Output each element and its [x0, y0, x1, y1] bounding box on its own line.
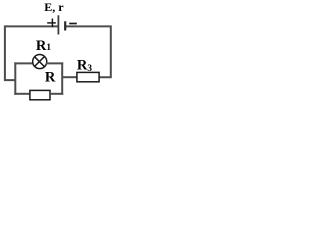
wire: lead from parallel section to R3 — [62, 76, 77, 78]
label - (negative terminal) — [69, 23, 77, 25]
svg-text:R: R — [45, 69, 56, 85]
label + (positive terminal) — [47, 19, 56, 28]
wire: from battery + plate, left along top, down left side, to parallel section — [5, 26, 58, 80]
svg-text:R3: R3 — [77, 57, 92, 74]
resistor R3 (box) — [77, 72, 99, 81]
svg-text:R1: R1 — [36, 38, 51, 54]
resistor R (box) — [30, 90, 50, 99]
wire: inner loop left edge — [14, 62, 16, 94]
wire: inner loop right edge — [61, 62, 63, 94]
wire: from battery - plate, right along top, down right side, to R3 — [65, 26, 111, 77]
battery short negative plate — [64, 21, 66, 30]
wire: lamp branch right lead — [46, 62, 63, 64]
wire: lamp branch left lead — [14, 62, 33, 64]
wire: bottom branch left lead — [14, 93, 30, 95]
svg-text:E, r: E, r — [44, 0, 64, 14]
battery long positive plate — [57, 15, 59, 34]
lamp R1 (circle with X) — [33, 55, 47, 69]
wire: bottom branch right lead — [50, 93, 63, 95]
